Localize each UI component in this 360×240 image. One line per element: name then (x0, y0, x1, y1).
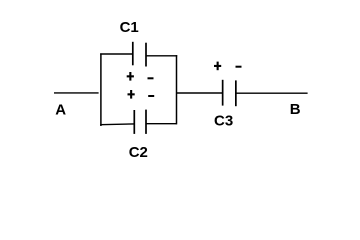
wire left vertical of parallel loop (100, 53, 102, 126)
capacitor C1 right plate (145, 43, 147, 67)
svg-text:B: B (290, 101, 301, 118)
svg-text:A: A (55, 101, 66, 118)
wire right vertical of parallel loop (176, 55, 178, 124)
capacitor C3 polarity plus (214, 62, 221, 71)
capacitor C3 right plate (235, 80, 237, 106)
wire top-left branch (100, 53, 133, 55)
wire B lead (236, 92, 307, 94)
svg-text:C3: C3 (214, 112, 233, 129)
capacitor C1 left plate (132, 42, 134, 66)
capacitor C3 left plate (222, 80, 224, 106)
polarity row 2 minus (148, 95, 154, 97)
capacitor C2 left plate (133, 110, 135, 134)
wire bottom-left branch (100, 123, 134, 126)
wire A lead (54, 92, 99, 94)
wire middle stub to C3 (177, 92, 223, 94)
capacitor C2 right plate (145, 110, 147, 134)
svg-text:C2: C2 (129, 144, 148, 161)
wire top-right branch (146, 55, 177, 57)
polarity row 1 plus (127, 72, 134, 81)
svg-text:C1: C1 (120, 19, 139, 36)
capacitor C3 polarity minus (236, 66, 242, 68)
polarity row 2 plus (128, 90, 135, 99)
wire bottom-right branch (146, 123, 177, 125)
polarity row 1 minus (148, 77, 154, 79)
